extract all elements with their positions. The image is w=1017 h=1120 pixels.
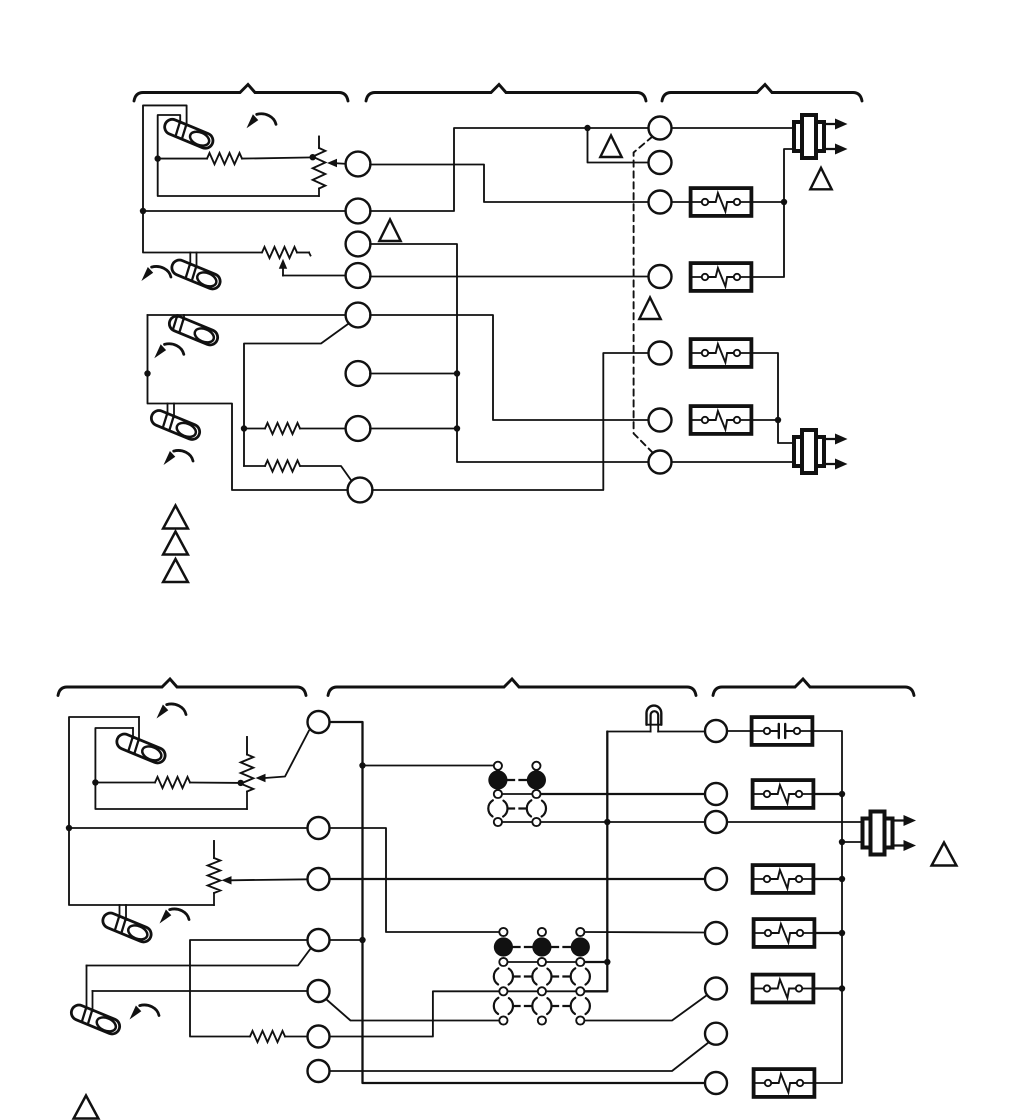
wiper arrow P3 [222,876,232,884]
rotation arrow M4 [164,450,194,465]
terminal C6 [705,978,727,1000]
terminal A2 [346,199,371,224]
rotation arrow M3 [154,344,184,359]
resistor R5 heat anticipator [155,777,190,788]
wire left riser [148,315,349,490]
wire [814,793,842,795]
note triangle stack 3 [163,559,188,582]
terminal T-3 [649,191,672,214]
heat relay 1 [691,188,752,216]
wire [143,210,346,212]
wire B2 dogleg [330,828,500,932]
mercury switch M5 [115,717,168,765]
wire [158,158,207,160]
rotation arrow M5 [157,704,187,719]
terminal A6 [346,361,371,386]
terminal A5 [346,303,371,328]
wire [814,878,842,880]
terminal A4 [346,263,371,288]
rotation arrow M2 [141,266,171,281]
terminal B5 [308,980,330,1002]
mercury switch M4 [149,404,202,442]
wire [158,115,319,196]
wire [752,419,778,421]
terminal B2 [308,817,330,839]
wire [285,1036,308,1038]
node [839,791,845,797]
mercury switch M7 [69,966,122,1037]
wire [727,730,751,732]
terminal B6 [308,1026,330,1048]
mercury switch M3 [167,314,220,348]
resistor R4 [265,460,300,471]
wire [242,157,313,158]
indicator lamp [647,706,662,732]
wire [815,932,842,934]
wire row lower [503,990,580,992]
wire row [502,821,533,823]
wire A3 down [370,244,649,462]
transformer X2 [794,430,848,473]
wire [814,987,842,989]
wire [300,428,346,430]
wire [244,465,265,467]
dashed mode link (top diagram) [634,137,654,454]
terminal A8 [348,478,373,503]
terminal B1 [308,711,330,733]
terminal C3 [705,811,727,833]
node [839,985,845,991]
bus wire center [585,732,608,992]
resistor R3 [265,423,300,434]
mercury switch M2 [170,253,223,292]
wire A7 [370,428,457,430]
wire to transformer 3 [727,821,862,823]
wire to transformer [672,127,793,129]
terminal T-7 [649,451,672,474]
wire [297,252,309,254]
terminal A1 [346,152,371,177]
wire outer loop [69,717,214,905]
brace: thermostat section (top) [134,85,348,102]
contact tie dashes [508,807,528,809]
wire [190,782,241,784]
node [155,155,161,161]
terminal C8 [705,1072,727,1094]
rotation arrow M7 [130,1005,160,1020]
node [359,762,365,768]
node [781,199,787,205]
wire row mid [503,961,580,963]
mercury switch M6 [101,905,154,944]
brace: subbase section (top) [366,85,646,102]
wire [148,314,347,316]
switch arm A5 [244,324,348,466]
transformer X1 [794,115,848,158]
cool relay 1 [691,339,752,367]
terminal C1 [705,720,727,742]
wire A6 [370,373,457,375]
node [604,819,610,825]
wire lamp row [607,731,650,733]
heat relay 3 [753,780,814,808]
brace: system section (top) [662,85,862,102]
resistor R6 [250,1031,285,1042]
wire [143,105,262,252]
wire row to bus [585,961,608,963]
switch arm B4 [87,948,312,966]
wire to transformer 2 [672,461,793,463]
node [604,959,610,965]
node [584,125,590,131]
potentiometer P2 [246,737,248,755]
brace: thermostat section (bottom) [58,679,306,696]
wire riser to transformer [752,149,792,277]
wire row to C2 [542,793,706,795]
contact column x=580.3 [571,928,590,1025]
wire [95,782,155,784]
wiper arrow P2 [256,774,266,782]
wire [842,841,862,843]
aux relay [754,1069,815,1097]
potentiometer P1 temperature setting lever [318,137,320,149]
heat relay 4 [753,865,814,893]
node [140,208,146,214]
wire A4 across [370,276,649,278]
wire B4 left dogleg [190,940,308,1037]
rotation arrow M1 [247,114,277,129]
note triangle stack 2 [163,532,188,555]
mercury switch M1 [162,117,215,151]
node [839,876,845,882]
wiper arrow R2 [279,259,287,269]
node [238,780,244,786]
brace: subbase section (bottom) [328,679,696,696]
potentiometer P3 [213,841,215,858]
wire A2 up-over [370,128,649,211]
terminal B3 [308,868,330,890]
node [454,425,460,431]
terminal A3 [346,232,371,257]
note triangle 4 (mid) [639,298,660,320]
wire [752,201,784,203]
wire B6 dogleg to block [330,991,500,1036]
note triangle 2 [379,220,400,242]
terminal B7 [308,1060,330,1082]
wire [231,879,308,880]
switch arm B1 [265,731,309,779]
contact column x=503.4 [494,928,513,1025]
wiper arrow P1 [327,159,337,167]
wire B4 right [330,939,363,941]
terminal C7 [705,1023,727,1045]
node [454,370,460,376]
wire B3 to C4 [330,878,706,880]
contact column x=536.4 [527,762,546,826]
cool relay 2 [691,406,752,434]
note triangle right [932,843,957,866]
node [66,825,72,831]
node [839,930,845,936]
wire bulb to B5 [93,990,308,992]
resistor R2 cooling anticipator [262,247,297,258]
node [839,839,845,845]
wire to contact block [363,765,494,767]
transformer X3 [863,812,917,855]
contact column x=541.9 [532,928,551,1025]
terminal C2 [705,783,727,805]
terminal T-6 [649,409,672,432]
node [310,154,316,160]
note triangle stack 1 [163,506,188,529]
cool relay 3 [754,919,815,947]
wire top row to C5 [585,931,706,934]
switch arm B5 [327,1000,500,1021]
terminal B4 [308,929,330,951]
note triangle 1 (top) [600,136,621,158]
wire to bus right [813,731,842,1083]
brace: system section (bottom) [713,679,914,696]
contact tie dashes [513,975,532,977]
terminal T-5 [649,342,672,365]
wire A1 to terminal row [370,165,649,203]
node [359,937,365,943]
wire bottom row to C6 [585,994,709,1021]
wire [244,428,265,430]
wire [752,353,794,443]
wire [672,201,691,203]
wire row to C3 [542,821,706,823]
wire diagonal to A8 [300,466,352,482]
wire [69,827,308,829]
terminal T-2 [649,151,672,174]
terminal A7 [346,416,371,441]
heat relay 2 [691,263,752,291]
wire A5 right dogleg [370,315,649,420]
wire A8 riser to terminal [372,353,649,490]
terminal C5 [705,922,727,944]
wire row [502,793,533,795]
wire branch to terminal [588,128,649,163]
contact tie dashes [513,1005,532,1007]
note triangle 3 [810,168,831,190]
contact column x=497.9 [488,762,507,826]
wire B7 to C7 [330,1043,709,1072]
resistor R1 heat anticipator [207,153,242,164]
node [775,417,781,423]
terminal C4 [705,868,727,890]
note triangle bottom-left [74,1096,99,1119]
wire inner loop [95,728,247,809]
terminal T-4 [649,265,672,288]
node [241,425,247,431]
node [92,779,98,785]
clock box [752,717,813,745]
contact tie dashes [508,779,528,781]
terminal T-R [649,117,672,140]
node [144,370,150,376]
fan relay [753,975,814,1003]
contact tie dashes [513,946,532,948]
wire B1 to C8 run [330,722,706,1083]
rotation arrow M6 [160,909,190,924]
